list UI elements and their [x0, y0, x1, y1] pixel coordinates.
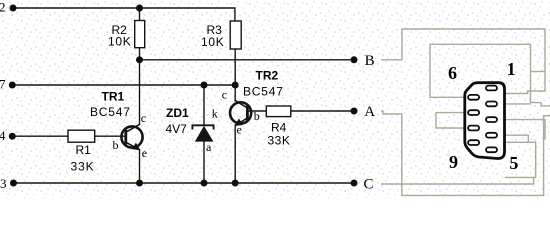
svg-text:A: A — [364, 104, 375, 120]
pin 4 — [486, 133, 497, 138]
svg-text:ZD1: ZD1 — [166, 106, 189, 120]
wire B to DB9 outline (top route) — [381, 29, 545, 94]
resistor R3 — [230, 21, 241, 49]
node A terminal — [351, 108, 358, 115]
svg-text:9: 9 — [449, 152, 458, 172]
wire ZD1 top — [203, 85, 205, 125]
node pin3 terminal — [10, 180, 17, 187]
wire ZD1 bottom — [203, 141, 205, 183]
resistor R1 — [68, 130, 95, 142]
transistor TR1 — [90, 89, 147, 160]
node R2 top junction — [136, 5, 143, 12]
pin 3 — [486, 117, 497, 122]
node C terminal — [351, 180, 358, 187]
resistor R2 — [135, 21, 145, 48]
svg-text:BC547: BC547 — [90, 105, 131, 119]
svg-text:6: 6 — [448, 63, 457, 83]
pin 7 — [468, 110, 479, 115]
svg-text:b: b — [113, 138, 119, 152]
pin 8 — [468, 126, 479, 131]
wire pins7-8 bracket — [436, 113, 465, 128]
wire rail pin4 to R1 — [13, 135, 69, 137]
wire TR1 emitter vertical — [139, 149, 141, 183]
svg-text:c: c — [222, 88, 227, 102]
wire TR2 base to R4 — [248, 110, 267, 112]
svg-text:e: e — [237, 123, 242, 137]
node ZD1 anode junction — [201, 180, 208, 187]
wire TR2 emitter vertical — [234, 125, 236, 184]
node B terminal — [351, 56, 358, 63]
node pin4 terminal — [9, 133, 16, 140]
svg-text:R1: R1 — [76, 143, 92, 157]
pin 9 — [468, 140, 479, 145]
svg-text:33K: 33K — [71, 160, 95, 174]
svg-text:33K: 33K — [268, 134, 291, 148]
wire pin6 wrap (inner box) — [430, 44, 550, 106]
wire box around 5 — [505, 142, 536, 177]
svg-text:TR1: TR1 — [102, 89, 125, 103]
node TR1 emitter junction — [136, 180, 143, 187]
wire bottom rail pin3 to C — [14, 182, 355, 184]
svg-text:4V7: 4V7 — [166, 122, 188, 136]
wire R4 to node A — [291, 110, 354, 112]
pin 2 — [486, 102, 497, 107]
wire R3 bottom to TR2 collector vertical — [234, 49, 236, 102]
wire R1 to TR1 base — [95, 135, 126, 137]
wire rail pin7 — [13, 84, 236, 86]
wire bridge segment — [531, 71, 546, 73]
node TR2 emitter junction — [232, 180, 239, 187]
svg-text:10K: 10K — [108, 35, 131, 49]
connector DB9 outline — [465, 83, 505, 159]
wire top rail pin2 to R3 — [13, 8, 235, 21]
svg-text:5: 5 — [509, 153, 518, 173]
transistor TR2 — [222, 68, 284, 136]
node pin7 terminal — [9, 82, 16, 89]
wire R2 tap — [139, 8, 141, 21]
resistor R4 — [266, 106, 291, 117]
node TR2 collector junction — [232, 82, 239, 89]
connector pins — [468, 86, 497, 153]
wire R2 bottom / TR1 collector vertical — [139, 48, 141, 125]
gray interconnect art — [381, 29, 550, 195]
zener diode ZD1 — [166, 106, 218, 154]
node ZD1 cathode junction — [201, 82, 208, 89]
svg-text:b: b — [254, 109, 260, 123]
node R2 bottom junction — [136, 56, 143, 63]
svg-text:3: 3 — [0, 176, 7, 191]
wire C to DB9 — [381, 178, 534, 184]
svg-text:2: 2 — [0, 0, 6, 15]
wire A to DB9 (bottom route) — [381, 111, 550, 195]
svg-text:c: c — [141, 111, 146, 125]
svg-text:7: 7 — [0, 77, 6, 92]
svg-text:B: B — [365, 53, 375, 69]
pin 5 — [486, 147, 497, 152]
svg-text:1: 1 — [507, 59, 516, 79]
svg-text:TR2: TR2 — [256, 68, 279, 82]
svg-text:e: e — [142, 146, 147, 160]
svg-text:R4: R4 — [271, 121, 287, 135]
svg-text:4: 4 — [0, 128, 6, 143]
svg-text:a: a — [206, 140, 212, 154]
node pin2 terminal — [10, 5, 17, 12]
svg-text:BC547: BC547 — [243, 84, 284, 98]
pin 6 — [468, 95, 479, 100]
wire pin3 stub — [505, 120, 545, 140]
pin 1 — [486, 86, 497, 91]
wire pin2 stub — [505, 103, 531, 105]
svg-text:10K: 10K — [201, 35, 224, 49]
wire pin4 stub — [505, 135, 528, 142]
svg-text:C: C — [364, 177, 374, 193]
wire B line from R2 bottom to node B — [140, 59, 355, 61]
svg-text:k: k — [212, 107, 218, 121]
